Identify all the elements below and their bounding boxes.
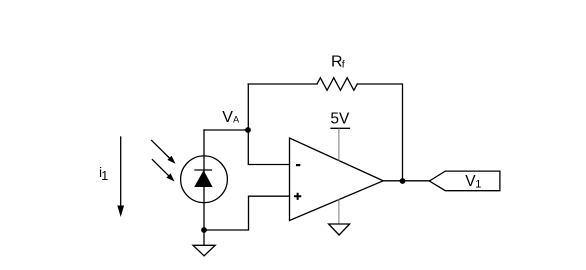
svg-text:1: 1: [475, 179, 481, 191]
svg-text:V: V: [222, 109, 233, 126]
svg-text:1: 1: [101, 169, 108, 183]
svg-text:f: f: [342, 59, 345, 71]
svg-text:5V: 5V: [330, 111, 350, 128]
svg-text:A: A: [233, 114, 239, 124]
